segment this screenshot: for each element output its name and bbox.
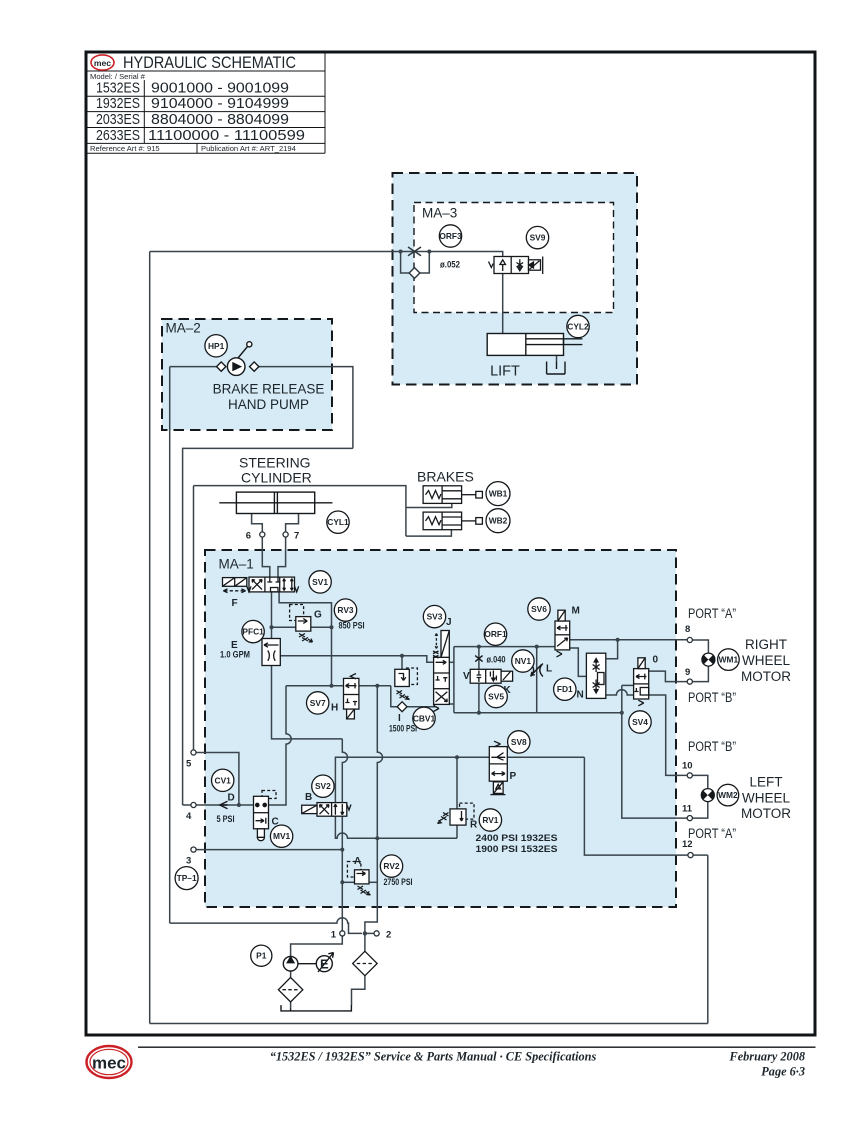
tank symbol under lift cylinder [547,362,565,375]
junction J5 [330,684,334,688]
MA-1 enclosure [205,550,676,907]
wire rail drop to MV1 with hop [269,686,292,805]
solenoid valve SV9 [489,257,543,275]
label bubble HP1 [205,335,227,357]
junction J15 [363,931,367,935]
svg-text:9104000 - 9104999: 9104000 - 9104999 [151,95,289,112]
wire hand pump left branch [170,366,225,368]
relief valve RV2 [347,862,370,896]
svg-text:WB2: WB2 [489,516,508,526]
svg-text:TP–1: TP–1 [177,873,197,883]
svg-text:MOTOR: MOTOR [741,806,791,821]
junction J9 [620,711,624,715]
MA-2 enclosure [162,319,332,430]
svg-text:WHEEL: WHEEL [742,653,791,668]
wire CBV1 top connection [401,656,403,670]
wire node 5 riser [193,486,195,750]
wire CBV1 bottom loop [391,686,434,707]
svg-text:HP1: HP1 [208,341,225,351]
label bubble WB2 [486,509,510,533]
svg-text:SV8: SV8 [511,737,527,747]
svg-text:CYLINDER: CYLINDER [241,470,312,486]
wire SV9 to lift cylinder [502,274,504,334]
svg-text:6: 6 [246,531,251,542]
svg-text:R: R [470,820,478,831]
svg-text:ORF1: ORF1 [484,629,507,639]
label bubble WM2 [717,784,739,806]
MA-3 enclosure [393,173,638,385]
wire SV8 out to node 12 [584,757,688,855]
label bubble CBV1 [413,707,436,729]
svg-text:2: 2 [386,930,391,941]
wire node 2 stub [365,932,374,934]
wire port 6 to SV1 [262,537,270,577]
svg-text:D: D [228,793,235,804]
wire NV1 column [536,647,538,713]
svg-text:WM2: WM2 [718,790,738,800]
svg-text:V: V [463,671,470,682]
svg-text:A: A [354,856,361,867]
wheel brake WB1 [423,486,482,504]
wire SV2 right column down [341,816,343,931]
wire filter 2 to tank [352,976,365,1005]
wire ORF3 bypass loop [401,252,430,274]
label bubble FD1 [554,678,576,700]
wire node 4 run to MV1 [183,804,254,806]
tank symbol main [281,1005,351,1011]
check valve in ORF3 bypass [409,268,420,279]
label bubble SV8 [508,731,530,753]
wire node 5 branch to MV1 line [196,753,239,806]
solenoid valve SV4 [634,658,649,706]
electric motor E [298,953,334,973]
wire node 8 to wheel motor 1 [692,640,708,682]
wire SV6 to FD1 left [570,648,587,676]
node 8 [687,637,692,642]
svg-text:CV1: CV1 [215,775,232,785]
node 12 [688,853,693,858]
junction J18 [477,711,481,715]
wire hand pump suction run with hop [170,918,362,934]
svg-text:WB1: WB1 [489,489,508,499]
svg-text:HAND PUMP: HAND PUMP [228,397,309,412]
check valve CV1 on node 4 line [220,801,228,809]
svg-text:ORF3: ORF3 [439,231,462,241]
svg-text:BRAKES: BRAKES [417,469,474,485]
node 2 [374,931,379,936]
label bubble ORF1 [484,623,507,645]
svg-text:SV2: SV2 [315,781,331,791]
flow divider FD1 [586,653,605,698]
svg-text:1: 1 [331,930,337,941]
junction J11 [455,755,459,759]
svg-text:0: 0 [653,655,659,666]
node 3 [191,847,196,852]
MA-3 inner white box [414,203,614,313]
svg-text:mec: mec [92,1054,126,1073]
orifice X above SV5 [475,656,482,662]
wire lift cylinder tank drop [556,355,558,361]
label bubble SV1 [309,571,331,593]
svg-text:MA–3: MA–3 [422,206,457,221]
wire RV3 gauge line [272,626,332,628]
svg-text:10: 10 [682,761,693,772]
svg-text:Page 6·3: Page 6·3 [761,1065,805,1079]
wire node 11 to wheel motor 2 [692,775,707,818]
solenoid valve SV6 [555,610,570,657]
svg-text:HYDRAULIC SCHEMATIC: HYDRAULIC SCHEMATIC [123,54,296,72]
svg-text:4: 4 [186,811,192,822]
orifice ORF3 [408,247,421,256]
wire SV2 left column up to SV8 [335,757,584,802]
svg-text:ø.040: ø.040 [487,655,506,666]
junction J13 [340,848,344,852]
wire port 7 to SV1 [278,537,286,577]
svg-text:RIGHT: RIGHT [745,637,787,652]
needle valve NV1 [531,664,543,677]
label bubble WB1 [486,482,510,506]
wire ORF3 supply line [150,252,503,257]
svg-text:8804000 - 8804099: 8804000 - 8804099 [151,111,289,128]
wire PFC1 bypass down with corner [272,666,343,739]
svg-text:11100000 - 11100599: 11100000 - 11100599 [148,127,305,144]
wire node 1 to pump [291,936,343,957]
svg-text:P: P [510,771,517,782]
svg-text:J: J [446,617,452,628]
label bubble ORF3 [439,225,462,247]
svg-text:L: L [546,664,552,675]
svg-text:February 2008: February 2008 [729,1050,806,1064]
node 10 [687,773,692,778]
svg-text:SV9: SV9 [530,233,546,243]
svg-text:PORT “B”: PORT “B” [688,690,736,705]
label bubble CYL1 [327,511,349,533]
label bubble MV1 [270,825,292,847]
svg-text:LIFT: LIFT [490,364,520,380]
svg-text:5 PSI: 5 PSI [217,814,235,825]
wire SV6 out to node 8 [570,639,688,641]
svg-text:MA–2: MA–2 [166,321,201,336]
label bubble TP-1 [175,867,198,890]
wire brakes supply run [194,486,406,536]
svg-text:WHEEL: WHEEL [742,791,791,806]
wire brake release run to node 4 riser [183,448,353,805]
wire SV7 rail [286,685,391,687]
solenoid valve SV7 [344,674,359,719]
wire bypass drop to SV2 with hop [342,739,347,803]
svg-text:WM1: WM1 [719,655,739,665]
node 6 [260,532,265,537]
wire node 2 to filter 2 [364,933,366,951]
wheel brake WB2 [423,512,482,530]
priority flow control PFC1 [262,639,280,666]
svg-text:RV1: RV1 [482,815,498,825]
svg-text:N: N [577,690,584,701]
wire SV4 left mid link [622,684,634,686]
node 11 [687,816,692,821]
svg-text:F: F [232,598,238,609]
junction J16 [535,645,539,649]
svg-text:Publication Art #: ART_2194: Publication Art #: ART_2194 [201,144,296,153]
label bubble CV1 [212,769,234,791]
wire SV4 column to node 11 [622,685,687,818]
counterbalance valve CBV1 [395,668,418,712]
junction J6 [375,684,379,688]
svg-text:Reference Art #: 915: Reference Art #: 915 [90,144,160,153]
node 9 [687,679,692,684]
footer rule [138,1046,816,1048]
svg-text:7: 7 [294,531,299,542]
wire RV2 left link [342,881,354,883]
steering valve SV1 [223,577,299,593]
svg-text:STEERING: STEERING [239,455,311,471]
wire pump to filter 1 [290,971,292,977]
svg-text:SV7: SV7 [310,698,326,708]
svg-text:MA–1: MA–1 [219,557,254,572]
svg-text:SV5: SV5 [488,692,504,702]
label bubble RV1 [479,809,501,831]
svg-text:B: B [305,792,312,803]
wire FD1 to SV4 with hop [606,690,634,695]
svg-text:5: 5 [186,759,192,770]
wire RV1 drain run with hop [335,816,457,838]
pump P1 [283,956,298,971]
wire SV1 to PFC1 drop [271,592,273,639]
wire RV1 column [456,757,458,838]
solenoid valve SV8 [489,741,507,794]
svg-text:SV6: SV6 [531,604,547,614]
svg-text:SV3: SV3 [427,612,443,622]
svg-text:8: 8 [685,624,690,635]
junction J2 [427,250,431,254]
svg-text:LEFT: LEFT [749,775,782,790]
wire hand pump left riser down [169,367,171,924]
label bubble PFC1 [242,620,264,642]
wire hand pump right branch [250,367,353,449]
svg-text:RV2: RV2 [383,861,399,871]
wire node 12 right stub [693,854,708,856]
wire pilot drop to FD1 [606,640,618,659]
svg-text:H: H [331,703,338,714]
mec logo top [91,55,114,70]
wire right return riser [707,855,709,1023]
svg-text:CYL1: CYL1 [327,517,349,527]
wire bridge top rail [454,646,555,648]
svg-text:1.0 GPM: 1.0 GPM [220,650,250,661]
svg-text:SV4: SV4 [632,717,648,727]
label bubble SV9 [526,226,548,248]
svg-text:NV1: NV1 [515,656,532,666]
wire RV2 right link [369,881,377,883]
node 1 [340,931,345,936]
junction J3 [270,625,274,629]
svg-text:11: 11 [682,804,693,815]
wire steering port 7 drop [286,514,299,533]
hand pump HP1 [217,342,259,376]
svg-text:2033ES: 2033ES [96,111,140,128]
svg-text:1500 PSI: 1500 PSI [389,724,417,735]
wire bridge left riser [453,647,455,713]
node 5 [191,750,196,755]
svg-text:I: I [398,713,401,724]
svg-text:G: G [314,610,322,621]
label bubble SV5 [485,685,507,707]
svg-text:1932ES: 1932ES [96,95,140,112]
wire brake WB1 branch [406,503,452,507]
wire bottom return run [150,1023,708,1025]
svg-text:E: E [320,957,329,972]
svg-text:FD1: FD1 [557,684,573,694]
label bubble SV7 [307,692,329,714]
svg-text:RV3: RV3 [337,605,353,615]
svg-text:2633ES: 2633ES [96,127,140,144]
label bubble WM1 [718,649,740,671]
svg-text:PFC1: PFC1 [242,627,264,637]
wire filter 1 to tank [290,1002,292,1009]
svg-text:3: 3 [186,856,191,867]
svg-text:MV1: MV1 [273,831,291,841]
wheel motor WM1 [702,653,715,666]
svg-text:1532ES: 1532ES [96,80,140,97]
junction J8 [616,638,620,642]
svg-text:9: 9 [685,667,690,678]
page frame [86,52,815,1035]
label bubble CYL2 [567,315,589,337]
relief valve RV1 [438,803,475,825]
junction J17 [477,645,481,649]
svg-text:CYL2: CYL2 [567,322,589,332]
junction J12 [237,803,241,807]
label bubble SV3 [423,605,445,627]
solenoid valve SV3 [433,631,449,712]
junction J4 [330,625,334,629]
lift cylinder CYL2 [487,334,582,356]
manual valve MV1 [254,791,277,841]
suction filter F1 [278,977,302,1001]
wire SV1 tank leg [279,592,331,686]
svg-text:BRAKE RELEASE: BRAKE RELEASE [213,382,325,397]
wire SV4 to node 10 [649,695,688,775]
svg-text:1900 PSI 1532ES: 1900 PSI 1532ES [476,844,558,855]
label bubble RV2 [380,855,402,877]
label bubble SV4 [629,711,651,733]
wire tank column C [365,686,383,934]
mec logo footer [87,1046,132,1078]
label bubble SV6 [528,598,550,620]
wire main return left riser [149,252,151,1024]
svg-text:SV1: SV1 [312,577,328,587]
label bubble RV3 [334,599,356,621]
svg-text:mec: mec [94,58,111,68]
svg-text:M: M [572,606,580,617]
junction J7 [400,654,404,658]
title block [88,52,326,153]
wire SV3 bottom cell to bridge [449,703,454,705]
wire node 9 to SV4 [649,671,688,682]
svg-text:PORT “B”: PORT “B” [688,739,736,754]
wire SV3 top cell to bridge [449,661,454,663]
label bubble NV1 [512,650,534,672]
wire steering port 6 drop [252,514,263,533]
node 4 [191,802,196,807]
wire node 3 run [196,849,342,851]
wheel motor WM2 [701,789,714,802]
label bubble SV2 [312,775,334,797]
wire PFC1 priority out to SV3 [280,656,433,663]
junction J14 [340,880,344,884]
svg-text:PORT “A”: PORT “A” [688,826,736,841]
svg-text:“1532ES / 1932ES” Service & Pa: “1532ES / 1932ES” Service & Parts Manual… [270,1050,597,1064]
svg-text:9001000 - 9001099: 9001000 - 9001099 [151,80,289,97]
svg-text:PORT “A”: PORT “A” [688,606,736,621]
wire SV5 column [478,647,480,713]
svg-text:2400 PSI 1932ES: 2400 PSI 1932ES [476,833,558,844]
solenoid valve SV2 [302,803,351,817]
svg-text:850 PSI: 850 PSI [339,621,365,632]
svg-text:MOTOR: MOTOR [741,669,791,684]
steering cylinder CYL1 [219,492,332,513]
junction J1 [399,250,403,254]
relief valve RV3 (G) [290,605,313,643]
label bubble P1 [251,945,272,966]
solenoid valve SV5 [470,669,512,683]
node 7 [283,532,288,537]
svg-text:CBV1: CBV1 [413,713,436,723]
svg-text:2750 PSI: 2750 PSI [384,877,413,888]
return filter F2 [353,951,377,975]
wire brake WB2 branch [406,529,452,536]
svg-text:P1: P1 [256,951,267,961]
junction J10 [375,836,379,840]
wire bridge bottom rail [454,712,622,714]
svg-text:ø.052: ø.052 [440,260,460,271]
